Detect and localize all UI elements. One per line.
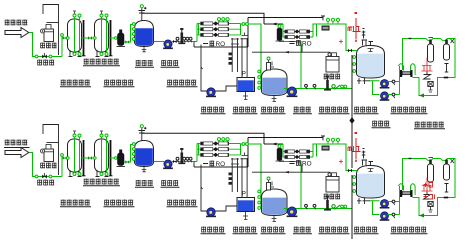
label 紫外线杀菌器 bbox=[391, 107, 428, 114]
flush pump 清洗水泵 bbox=[206, 208, 216, 217]
solenoid valve 电磁阀 bbox=[42, 173, 47, 179]
process train row 1 (top) bbox=[5, 5, 455, 169]
red sanitary element in loop bbox=[422, 58, 433, 72]
filter cylinder 2 bbox=[444, 159, 455, 180]
valve port bbox=[35, 175, 38, 178]
label 二级高压泵 bbox=[319, 107, 350, 114]
wire: pump discharge to loop bbox=[388, 186, 400, 215]
wire: drain separator line bbox=[351, 175, 353, 239]
wire: green inlet pipe to solenoid run bbox=[29, 153, 62, 177]
svg-text:RO: RO bbox=[302, 41, 312, 48]
flush tank drain bbox=[243, 92, 248, 100]
dosing unit 2 加药泵 bbox=[326, 53, 339, 72]
valve bbox=[186, 37, 189, 42]
valve port bbox=[49, 55, 52, 58]
pure tank ports bbox=[353, 176, 356, 193]
raw water tank 原水箱 bbox=[135, 21, 154, 47]
valve before carbon filter bbox=[88, 36, 92, 40]
svg-text:RO: RO bbox=[302, 161, 312, 168]
check valve bbox=[173, 160, 177, 163]
wire: main green line into mechanical filter bbox=[62, 37, 68, 39]
label 清洗水箱 bbox=[233, 107, 258, 114]
pure tank ports bbox=[353, 56, 356, 73]
security cartridge filter 保安过滤器 bbox=[117, 30, 126, 47]
label 电磁阀 bbox=[37, 60, 54, 66]
RO membrane bank stage 2 二级RO bbox=[283, 146, 313, 159]
air vent fitting bbox=[362, 29, 366, 39]
filter cylinder 2 bbox=[444, 39, 455, 60]
wire: pump discharge to loop bbox=[388, 66, 400, 95]
red text 43 marks (bottom row) bbox=[424, 183, 435, 200]
label 纯化水箱 bbox=[354, 107, 379, 114]
label 一级高压泵 bbox=[167, 200, 198, 207]
wire: pump suction manifold bbox=[370, 81, 380, 95]
label 纯化水箱 bbox=[354, 227, 379, 234]
valve before mechanical filter bbox=[63, 36, 67, 40]
wire: RO1 product line to intermediate tank bbox=[241, 144, 262, 208]
label 一级高压泵 bbox=[167, 80, 198, 87]
pure water tank 纯水箱 bbox=[357, 166, 385, 199]
label 加药泵 (RO dosing) bbox=[324, 74, 340, 80]
valve bbox=[392, 80, 395, 85]
valve bbox=[313, 84, 316, 89]
wire: filter to RO2 manifold bbox=[280, 145, 284, 158]
wire: dosing connection bbox=[252, 45, 330, 57]
activated carbon filter 活性炭过滤器 bbox=[94, 11, 113, 57]
red sanitary element in loop bbox=[422, 178, 433, 192]
node: external water inlet label 外部来水 bbox=[5, 20, 28, 26]
intermediate tank drain bbox=[272, 96, 277, 102]
label 清洗水箱 bbox=[233, 227, 258, 234]
wire: flush circuit piping bbox=[194, 44, 248, 91]
valve bbox=[186, 157, 189, 162]
RO membrane bank stage 1 一级RO bbox=[197, 21, 241, 37]
dosing tank (加药泵 unit) bbox=[41, 145, 54, 162]
flush tank standpipe bbox=[241, 153, 249, 198]
valve bbox=[392, 213, 395, 218]
second stage HP pump 二级高压泵 bbox=[324, 196, 331, 211]
wire: flush circuit piping bbox=[194, 164, 248, 211]
wire: booster suction/discharge line bbox=[284, 208, 352, 210]
valve bbox=[305, 204, 308, 209]
air vent fitting bbox=[362, 149, 366, 159]
T fitting bbox=[445, 184, 449, 193]
label 中间水箱 bbox=[261, 227, 286, 234]
wire: RO1 feed riser bbox=[196, 144, 198, 162]
intermediate tank top fitting bbox=[267, 57, 275, 70]
label 保安过滤器 bbox=[104, 200, 135, 207]
RO2 pressure gauges bbox=[326, 18, 339, 23]
wire: main green line into mechanical filter bbox=[62, 157, 68, 159]
activated carbon filter 活性炭过滤器 bbox=[94, 131, 113, 177]
RO1 pressure gauges bbox=[217, 138, 229, 143]
label 原水泵 bbox=[161, 60, 180, 67]
loop instrument fitting bbox=[428, 202, 433, 213]
RO membrane bank stage 2 二级RO bbox=[283, 26, 313, 39]
sampling valves stack bbox=[229, 53, 233, 65]
loop valve bbox=[424, 72, 449, 80]
pipe hop arcs bbox=[399, 64, 416, 75]
red tick bbox=[339, 40, 343, 44]
sampling valves stack bbox=[229, 173, 233, 185]
valve port bbox=[242, 143, 245, 146]
label 活性炭过滤器 bbox=[83, 179, 120, 186]
UV sterilizer cylinder 1 bbox=[428, 38, 434, 63]
external water inlet arrow bbox=[5, 148, 29, 158]
first stage HP pump 一级高压泵 bbox=[178, 28, 185, 44]
valve before carbon filter bbox=[88, 156, 92, 160]
process train row 2 (bottom duplicate) bbox=[4, 125, 455, 240]
pure tank outlet fittings bbox=[357, 198, 370, 204]
dosing unit 2 加药泵 bbox=[326, 173, 339, 192]
pure water pump 1 纯水泵 bbox=[380, 200, 390, 209]
valve on tank inlet bbox=[348, 169, 352, 173]
wire: RO1 feed riser bbox=[196, 24, 198, 42]
raw water pump 原水泵 bbox=[163, 40, 173, 49]
loop valve bbox=[424, 192, 449, 200]
label 原水箱 bbox=[135, 180, 154, 187]
label 清洗水泵 bbox=[201, 107, 226, 114]
valve bbox=[183, 157, 186, 162]
intermediate tank top fitting bbox=[267, 177, 275, 190]
mechanical filter vessel 机械过滤器 bbox=[67, 11, 86, 57]
RO1 pressure gauges bbox=[217, 18, 229, 23]
wire: pipe to cartridge filter bbox=[109, 157, 118, 160]
valve bbox=[183, 37, 186, 42]
intermediate tank ports bbox=[258, 70, 261, 89]
level gauge column bbox=[231, 38, 246, 78]
valve bbox=[189, 157, 192, 162]
valve bbox=[392, 93, 395, 98]
label 原水泵 bbox=[161, 180, 180, 187]
wire: RO1 concentrate drop bbox=[193, 42, 195, 48]
intermediate tank ports bbox=[258, 190, 261, 209]
second stage HP pump 二级高压泵 bbox=[324, 76, 331, 91]
label 紫外线杀菌器 bbox=[391, 227, 428, 234]
label 二级高压泵 bbox=[319, 227, 350, 234]
label 机械过滤器 bbox=[60, 200, 91, 207]
valve port bbox=[246, 143, 249, 146]
label 原水箱 bbox=[135, 60, 154, 67]
valve bbox=[176, 157, 179, 162]
label 清洗水泵 bbox=[201, 227, 226, 234]
pure tank top fittings bbox=[362, 160, 374, 166]
wire: RO1 product line to intermediate tank bbox=[241, 24, 262, 88]
valve bbox=[176, 37, 179, 42]
raw tank vent fitting bbox=[139, 5, 147, 21]
loop instrument fitting bbox=[428, 82, 433, 93]
flush water tank 清洗水箱 bbox=[237, 198, 255, 212]
label 加药泵 (pretreatment dosing) bbox=[40, 43, 56, 49]
wire: RO2 product line bbox=[313, 144, 357, 171]
solenoid valve 电磁阀 bbox=[42, 53, 47, 59]
dosing skid frame bbox=[43, 125, 59, 176]
wire: concentrate recycle line (top) bbox=[142, 133, 325, 167]
wire: polishing loop frame bbox=[403, 159, 456, 218]
RO2 pressure gauges bbox=[326, 138, 339, 143]
valve after cartridge filter bbox=[125, 40, 129, 43]
raw tank side ports bbox=[132, 23, 135, 41]
raw tank drain bbox=[142, 167, 147, 172]
raw tank vent fitting bbox=[139, 125, 147, 141]
wire: RO1 concentrate drop bbox=[193, 162, 195, 168]
flush tank drain bbox=[243, 212, 248, 220]
valve on tank inlet bbox=[348, 49, 352, 53]
label 加药泵 (RO dosing) bbox=[324, 194, 340, 200]
valve bbox=[189, 37, 192, 42]
valve bbox=[313, 204, 316, 209]
UV sterilizer cylinder 1 bbox=[428, 158, 434, 183]
pure tank spray ball bbox=[368, 169, 374, 172]
wire: green inlet pipe to solenoid run bbox=[29, 33, 62, 57]
wire: filter to RO2 manifold bbox=[280, 25, 284, 38]
flush pump 清洗水泵 bbox=[206, 88, 216, 97]
wire: pipe between filters bbox=[82, 157, 95, 159]
external water inlet arrow bbox=[5, 28, 29, 38]
red tick bbox=[339, 160, 343, 164]
instrument box bbox=[322, 26, 330, 31]
wire: RO2 feed riser bbox=[280, 161, 302, 209]
wire: RO2 product line bbox=[313, 24, 357, 51]
raw water tank 原水箱 bbox=[135, 141, 154, 167]
valve after cartridge filter bbox=[125, 160, 129, 163]
label 二级RO bbox=[290, 40, 312, 48]
pipe hop arcs bbox=[399, 184, 416, 195]
valve port bbox=[49, 175, 52, 178]
pure water tank 纯水箱 bbox=[357, 46, 385, 79]
pure tank top fittings bbox=[362, 40, 374, 46]
red sanitary valve assembly bbox=[348, 132, 361, 162]
valve port bbox=[242, 23, 245, 26]
pure water pump 2 bbox=[380, 212, 390, 221]
label 机械过滤器 bbox=[60, 80, 91, 87]
raw water pump 原水泵 bbox=[163, 160, 173, 169]
pure tank spray ball bbox=[368, 49, 374, 52]
pump outlet fitting bbox=[332, 205, 347, 210]
wire: pump suction manifold bbox=[370, 201, 380, 215]
wire: raw tank outlet bbox=[154, 161, 165, 163]
dosing skid frame bbox=[43, 5, 59, 56]
mechanical filter vessel 机械过滤器 bbox=[67, 131, 86, 177]
red sanitary valve assembly bbox=[348, 12, 361, 42]
wire: pipe cartridge->raw tank bbox=[124, 25, 134, 43]
booster pump 增压泵 bbox=[287, 87, 298, 97]
pure water pump 1 纯水泵 bbox=[380, 80, 390, 89]
intermediate water tank 中间水箱 bbox=[262, 69, 288, 96]
RO2 guard filter bbox=[276, 25, 285, 41]
label 活性炭过滤器 bbox=[83, 59, 120, 66]
label 纯水泵 bbox=[372, 121, 391, 128]
node: external water inlet label 外部来水 bbox=[4, 140, 30, 148]
raw tank drain bbox=[142, 47, 147, 52]
wire: polishing loop frame bbox=[403, 39, 456, 98]
intermediate water tank 中间水箱 bbox=[262, 189, 288, 216]
wire: riser from solenoid line to filter inlet bbox=[61, 154, 64, 177]
booster pump 增压泵 bbox=[287, 207, 298, 217]
wire: pump discharge line bbox=[172, 41, 197, 43]
security cartridge filter 保安过滤器 bbox=[117, 150, 126, 167]
label 中间水箱 bbox=[261, 107, 286, 114]
wire: pump discharge line bbox=[172, 161, 197, 163]
T fitting bbox=[445, 64, 449, 73]
label 电磁阀 bbox=[37, 180, 54, 186]
flush water tank 清洗水箱 bbox=[237, 78, 255, 92]
valve port bbox=[246, 23, 249, 26]
wire: pipe to cartridge filter bbox=[109, 37, 118, 40]
valve port bbox=[35, 55, 38, 58]
label 二级RO bbox=[290, 160, 312, 168]
label 板式换热器 bbox=[414, 122, 445, 129]
plate heat exchanger 板式换热器 bbox=[400, 190, 413, 197]
valve bbox=[392, 200, 395, 205]
level gauge column bbox=[231, 158, 246, 198]
label 增压泵 bbox=[293, 107, 312, 114]
RO2 guard filter bbox=[276, 145, 285, 161]
wire: RO2 feed riser bbox=[280, 41, 302, 89]
wire: dosing connection bbox=[252, 165, 330, 177]
wire: riser from solenoid line to filter inlet bbox=[61, 34, 64, 57]
plate heat exchanger 板式换热器 bbox=[400, 70, 413, 77]
flush tank standpipe bbox=[241, 33, 249, 78]
wire: booster suction/discharge line bbox=[284, 88, 352, 90]
raw tank side ports bbox=[132, 143, 135, 161]
pure tank outlet fittings bbox=[357, 78, 370, 84]
valve before mechanical filter bbox=[63, 156, 67, 160]
label 增压泵 bbox=[293, 227, 312, 234]
label 加药泵 (pretreatment dosing) bbox=[40, 163, 56, 169]
valve bbox=[305, 84, 308, 89]
RO membrane bank stage 1 一级RO bbox=[197, 141, 241, 157]
pure water pump 2 bbox=[380, 92, 390, 101]
wire: pipe cartridge->raw tank bbox=[124, 145, 134, 163]
wire: raw tank outlet bbox=[154, 41, 165, 43]
label 一级RO bbox=[203, 161, 225, 169]
dosing tank (加药泵 unit) bbox=[41, 25, 54, 42]
first stage HP pump 一级高压泵 bbox=[178, 148, 185, 164]
intermediate tank drain bbox=[272, 216, 277, 222]
label 一级RO bbox=[203, 41, 225, 49]
wire: drain separator line bbox=[349, 55, 354, 168]
pump outlet fitting bbox=[332, 85, 347, 90]
wire: concentrate recycle line (top) bbox=[142, 13, 325, 47]
label 保安过滤器 bbox=[104, 80, 135, 87]
instrument box bbox=[322, 146, 330, 151]
check valve bbox=[173, 40, 177, 43]
wire: pipe between filters bbox=[82, 37, 95, 39]
